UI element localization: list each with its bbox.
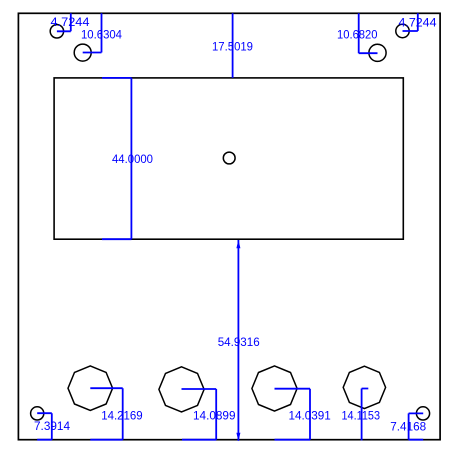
dimension 7.3914: lines bbox=[37, 413, 52, 440]
hole top-left small bbox=[50, 25, 63, 38]
main rectangle outline bbox=[54, 78, 403, 239]
dimension 14.2169: lines bbox=[90, 388, 122, 440]
hole top-left large bbox=[74, 44, 91, 61]
svg-text:17.5019: 17.5019 bbox=[212, 39, 253, 53]
dimension 10.6820: lines bbox=[359, 13, 378, 53]
svg-text:7.4168: 7.4168 bbox=[390, 420, 426, 434]
dimension 54.9316: bottom arrowhead bbox=[236, 433, 240, 442]
dimension 54.9316: top arrowhead bbox=[236, 240, 240, 249]
svg-text:10.6820: 10.6820 bbox=[337, 27, 378, 41]
svg-text:14.0899: 14.0899 bbox=[193, 408, 236, 422]
octagon hole 3 bbox=[252, 366, 297, 411]
dimension 7.4168: lines bbox=[409, 413, 424, 439]
hole bottom-right bbox=[416, 407, 429, 420]
dimension 44.0000: lines bbox=[102, 78, 131, 239]
svg-text:14.1153: 14.1153 bbox=[342, 408, 381, 422]
octagon hole 4 bbox=[343, 366, 385, 408]
center hole bbox=[223, 152, 235, 164]
svg-text:10.6304: 10.6304 bbox=[81, 27, 122, 41]
dimension 14.0899: lines bbox=[182, 389, 217, 440]
svg-text:44.0000: 44.0000 bbox=[112, 152, 153, 166]
svg-text:14.2169: 14.2169 bbox=[101, 408, 143, 422]
dimension 54.9316: line bbox=[237, 240, 239, 441]
hole top-right small bbox=[396, 24, 409, 37]
octagon hole 2 bbox=[159, 367, 204, 412]
svg-text:4.7244: 4.7244 bbox=[399, 16, 437, 30]
dimension 14.1153: lines bbox=[362, 389, 369, 441]
dimension 10.6304: lines bbox=[83, 13, 102, 52]
octagon hole 1 bbox=[68, 366, 113, 411]
svg-text:14.0391: 14.0391 bbox=[289, 408, 331, 422]
dimension 17.5019: line bbox=[232, 13, 234, 78]
hole bottom-left bbox=[31, 407, 44, 420]
dimension 4.7244 left: lines bbox=[57, 13, 71, 31]
dimension 14.0391: lines bbox=[275, 389, 311, 440]
svg-text:7.3914: 7.3914 bbox=[34, 419, 70, 433]
dimension 4.7244 right: lines bbox=[403, 13, 418, 31]
hole top-right large bbox=[369, 44, 386, 61]
svg-text:54.9316: 54.9316 bbox=[218, 335, 260, 349]
